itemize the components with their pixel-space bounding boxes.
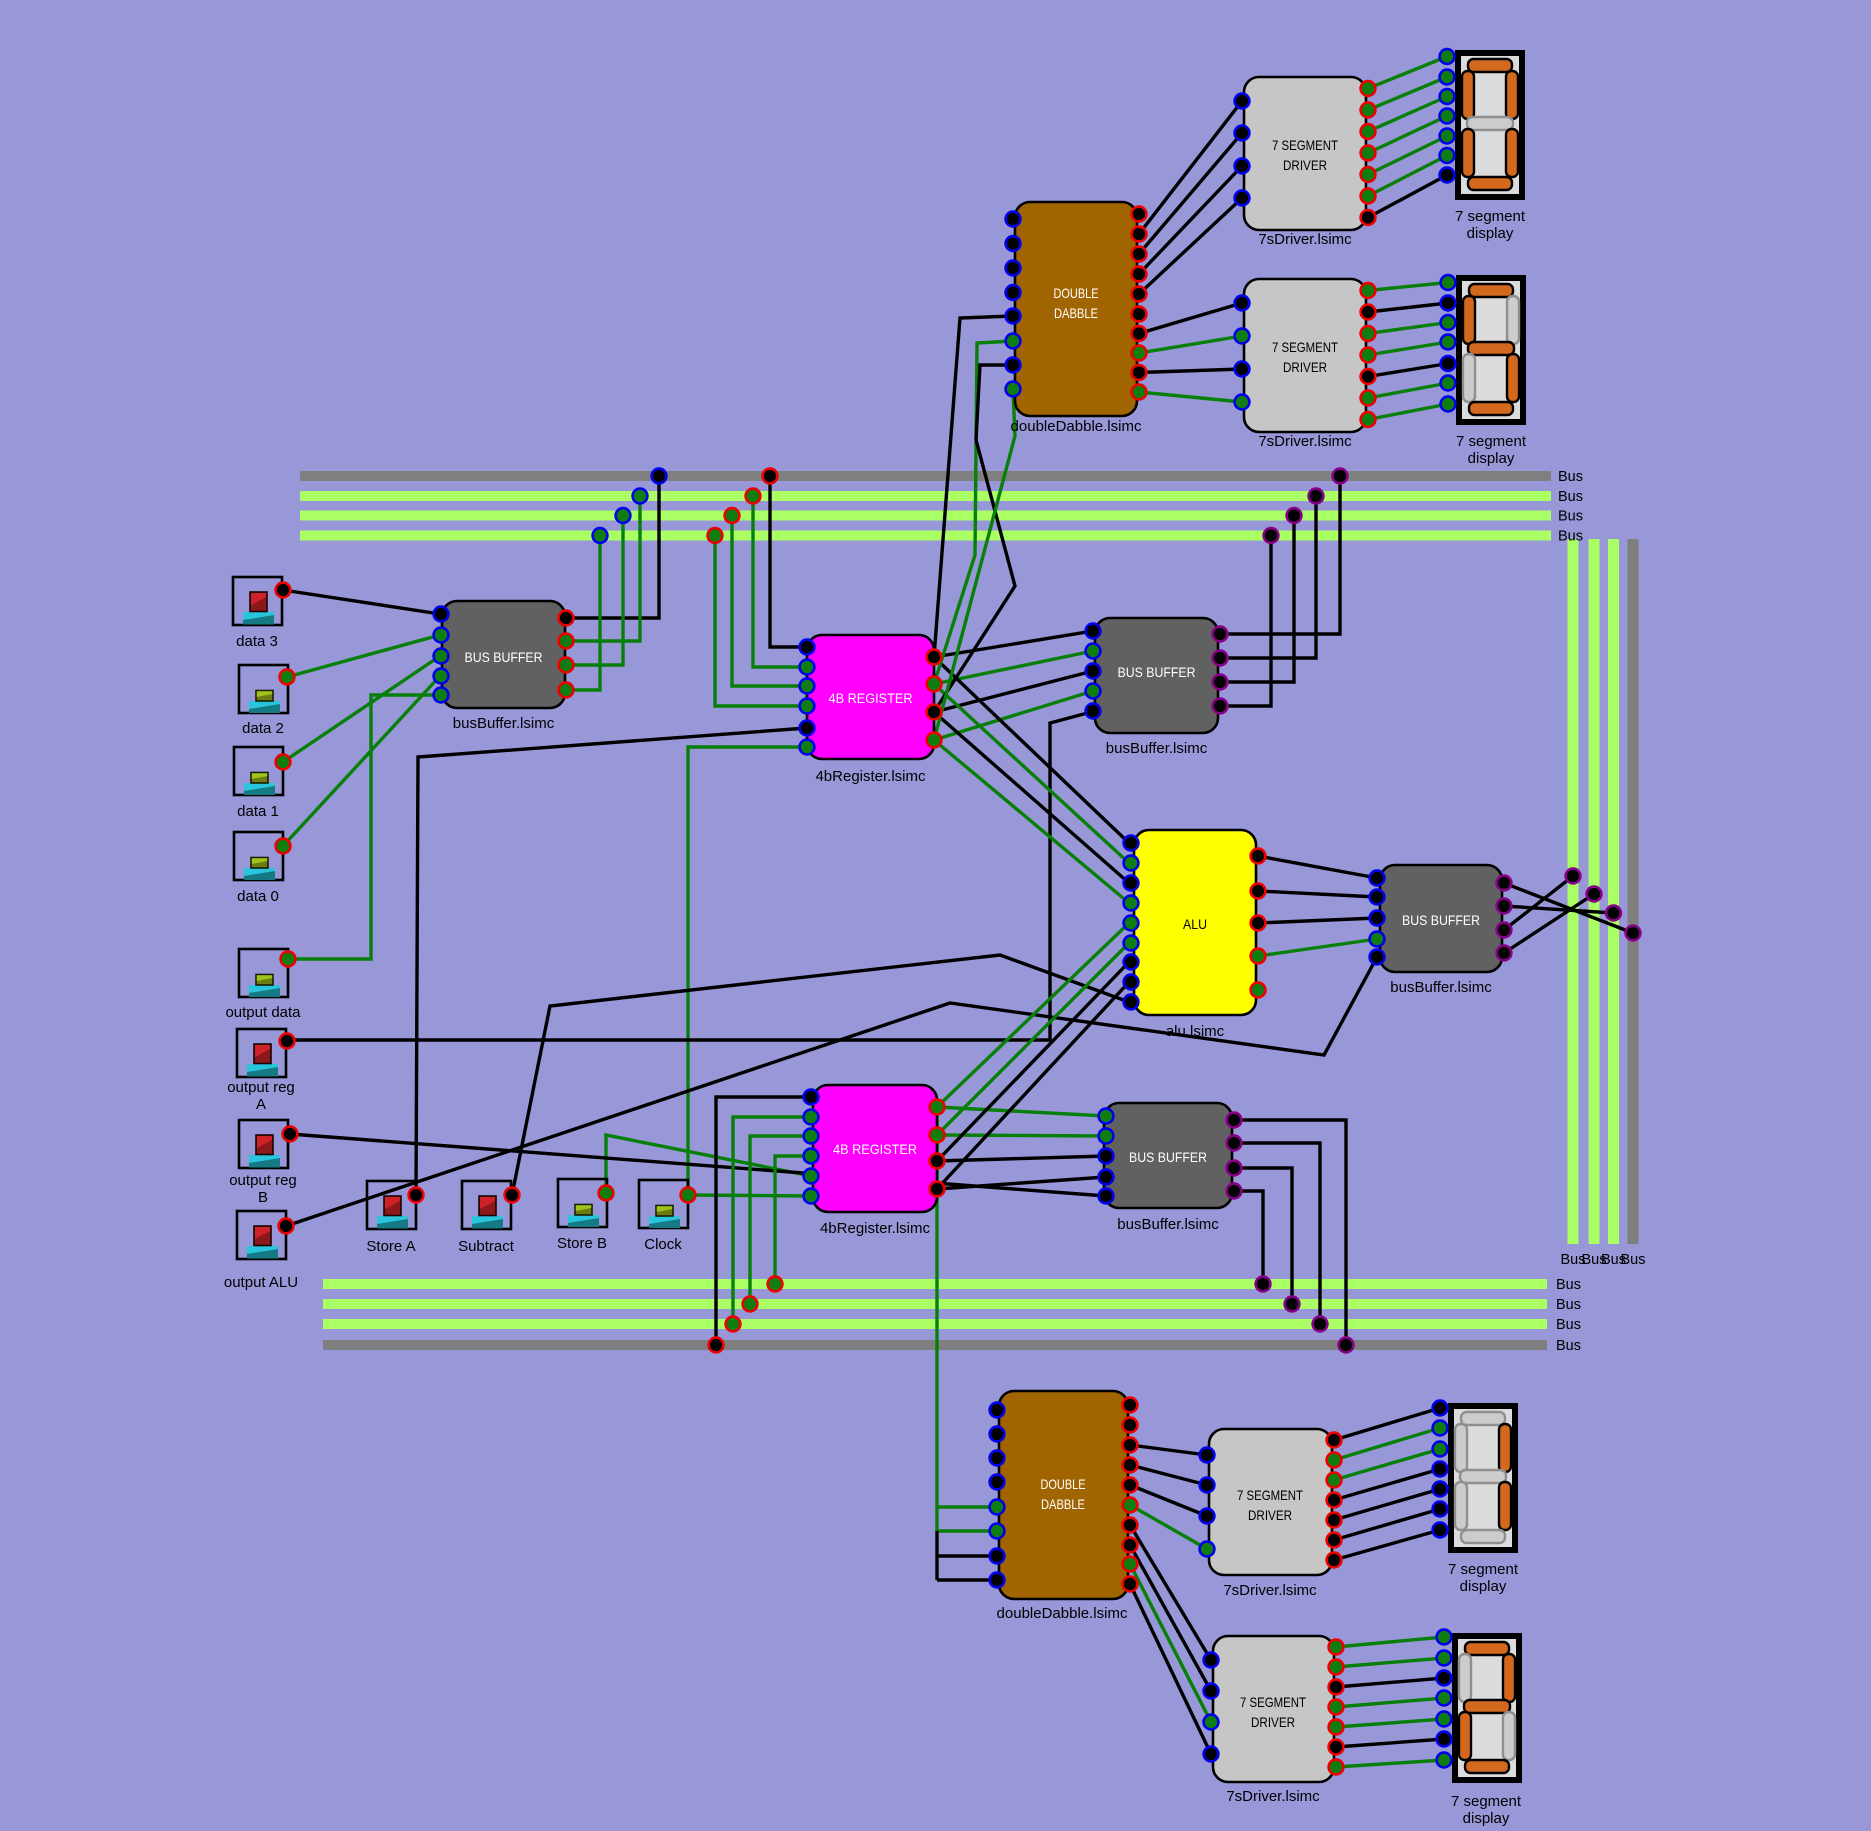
svg-text:busBuffer.lsimc: busBuffer.lsimc bbox=[1106, 740, 1208, 757]
svg-text:4bRegister.lsimc: 4bRegister.lsimc bbox=[815, 768, 926, 785]
svg-text:BUS BUFFER: BUS BUFFER bbox=[465, 649, 543, 665]
component doubleDabble1 bbox=[1011, 202, 1142, 435]
wire register2 out2 to ALU b2 bbox=[937, 943, 1129, 1135]
pin display 2 (digit 5) in6 bbox=[1441, 376, 1456, 391]
pin ALU in6 bbox=[1124, 936, 1139, 951]
pin register1 in6 bbox=[800, 740, 815, 755]
pin 7segDriver1 out2 bbox=[1361, 103, 1376, 118]
svg-text:7 SEGMENT: 7 SEGMENT bbox=[1240, 1694, 1306, 1710]
pin busBuffer2 out2 bbox=[1213, 651, 1228, 666]
svg-text:Subtract: Subtract bbox=[458, 1238, 515, 1255]
pin display 2 (digit 5) in3 bbox=[1441, 315, 1456, 330]
pin register2 out4 bbox=[930, 1182, 945, 1197]
pin doubleDabble1 in1 bbox=[1006, 212, 1021, 227]
bottom bus 2 (green) bbox=[323, 1299, 1547, 1309]
pin display 4 (digit 2) in5 bbox=[1437, 1712, 1452, 1727]
svg-text:doubleDabble.lsimc: doubleDabble.lsimc bbox=[1011, 418, 1142, 435]
button output reg A bbox=[237, 1029, 286, 1077]
svg-text:7 SEGMENT: 7 SEGMENT bbox=[1237, 1487, 1303, 1503]
pin busBuffer2 out1 bbox=[1213, 627, 1228, 642]
wire doubleDabble2 out6 to 7segDriver3 in4 bbox=[1130, 1505, 1207, 1549]
button data 3 bbox=[233, 577, 282, 625]
wire 7segDriver4 seg5 to display4 bbox=[1336, 1719, 1444, 1727]
pin display 2 (digit 5) in2 bbox=[1441, 296, 1456, 311]
pin display 4 (digit 2) in6 bbox=[1437, 1732, 1452, 1747]
component busBuffer4 (regB) bbox=[1104, 1103, 1232, 1233]
wire doubleDabble2 out4 to 7segDriver3 in2 bbox=[1130, 1465, 1207, 1485]
pin display 1 (digit 0) in2 bbox=[1440, 70, 1455, 85]
wire busBuffer2 out3 to top bus bbox=[1220, 516, 1294, 683]
pin doubleDabble1 in4 bbox=[1006, 285, 1021, 300]
wire busBuffer1 out3 to green bus2 bbox=[566, 516, 623, 666]
wire 7segDriver3 seg2 to display3 bbox=[1334, 1428, 1440, 1460]
svg-text:display: display bbox=[1460, 1578, 1507, 1595]
wire doubleDabble2 out10 to 7segDriver4 in4 bbox=[1130, 1584, 1211, 1754]
wire StoreB to register2 store bbox=[606, 1135, 811, 1193]
pin busBuffer3 out4 bbox=[1497, 946, 1512, 961]
wire green bus2 to register1 in3 bbox=[732, 516, 807, 687]
pin ALU in4 bbox=[1124, 896, 1139, 911]
display 2 (digit 5) segment g (lit) bbox=[1468, 342, 1514, 355]
wire doubleDabble1 out5 to 7segDriver1 in4 bbox=[1139, 198, 1242, 294]
display 1 (digit 0) segment g (off) bbox=[1467, 117, 1513, 130]
pin busBuffer4 in3 bbox=[1099, 1149, 1114, 1164]
wire 7segDriver3 seg1 to display3 bbox=[1334, 1408, 1440, 1440]
svg-text:7 segment: 7 segment bbox=[1451, 1793, 1522, 1810]
pin display 3 (digit 1) in6 bbox=[1433, 1502, 1448, 1517]
wire doubleDabble2 out7 to 7segDriver4 in1 bbox=[1130, 1525, 1211, 1660]
pin 7segDriver1 out7 bbox=[1361, 210, 1376, 225]
pin doubleDabble2 in5 bbox=[990, 1500, 1005, 1515]
display 4 (digit 2) frame bbox=[1452, 1633, 1522, 1783]
wire data2 to busBuffer1 in2 bbox=[287, 635, 440, 677]
svg-text:Bus: Bus bbox=[1556, 1317, 1581, 1333]
wire doubleDabble2 out3 to 7segDriver3 in1 bbox=[1130, 1445, 1207, 1455]
component register2 (B) bbox=[813, 1085, 937, 1237]
pin busBuffer4 out3 bbox=[1227, 1161, 1242, 1176]
button Clock bbox=[639, 1180, 688, 1228]
bus tap vertical gray bus (from busBuffer3) bbox=[1626, 926, 1641, 941]
svg-text:Bus: Bus bbox=[1556, 1277, 1581, 1293]
wire doubleDabble2 in6 branch bbox=[937, 1529, 997, 1532]
pin button output reg A output bbox=[280, 1034, 295, 1049]
svg-text:7 SEGMENT: 7 SEGMENT bbox=[1272, 339, 1338, 355]
pin 7segDriver3 in3 bbox=[1200, 1509, 1215, 1524]
pin display 3 (digit 1) in1 bbox=[1433, 1401, 1448, 1416]
pin busBuffer2 in4 bbox=[1086, 684, 1101, 699]
pin doubleDabble1 in8 bbox=[1006, 382, 1021, 397]
pin 7segDriver1 in1 bbox=[1235, 94, 1250, 109]
pin busBuffer1 in4 bbox=[434, 669, 449, 684]
wire busBuffer2 out1 to top bus bbox=[1220, 476, 1340, 634]
svg-text:BUS BUFFER: BUS BUFFER bbox=[1118, 664, 1196, 680]
svg-text:ALU: ALU bbox=[1183, 916, 1207, 932]
wire doubleDabble2 in7 branch bbox=[937, 1554, 997, 1557]
wire busBuffer4 out4 to bottom bus bbox=[1234, 1191, 1263, 1284]
wire register1 out1 to ALU a1 bbox=[934, 657, 1129, 843]
pin button data 3 output bbox=[276, 583, 291, 598]
pin busBuffer3 in2 bbox=[1370, 890, 1385, 905]
svg-text:DABBLE: DABBLE bbox=[1054, 305, 1098, 321]
pin button Subtract output bbox=[505, 1188, 520, 1203]
wire 7segDriver1 seg4 to display1 bbox=[1368, 116, 1447, 153]
pin 7segDriver4 out2 bbox=[1329, 1660, 1344, 1675]
svg-text:display: display bbox=[1468, 450, 1515, 467]
svg-text:display: display bbox=[1467, 225, 1514, 242]
wire register2 outputs down to doubleDabble2 (black pair) bbox=[935, 1531, 938, 1580]
display 2 (digit 5) frame bbox=[1456, 275, 1526, 425]
display 2 (digit 5) segment c (lit) bbox=[1507, 354, 1519, 402]
pin 7segDriver4 out7 bbox=[1329, 1760, 1344, 1775]
svg-text:output reg: output reg bbox=[229, 1172, 297, 1189]
wire busBuffer1 out2 to green bus1 bbox=[566, 496, 640, 641]
pin busBuffer3 in3 bbox=[1370, 911, 1385, 926]
svg-text:output reg: output reg bbox=[227, 1079, 295, 1096]
pin display 1 (digit 0) in4 bbox=[1440, 109, 1455, 124]
display 4 (digit 2) segment d (lit) bbox=[1465, 1760, 1509, 1773]
wire register1 out2 to busBuffer2 in2 bbox=[934, 651, 1093, 684]
wire 7segDriver2 seg5 to display2 bbox=[1368, 364, 1448, 377]
display 1 (digit 0) segment d (lit) bbox=[1468, 177, 1512, 190]
pin doubleDabble2 out6 bbox=[1123, 1498, 1138, 1513]
wire 7segDriver1 seg6 to display1 bbox=[1368, 156, 1447, 197]
display 3 (digit 1) segment e (off) bbox=[1455, 1482, 1467, 1530]
pin doubleDabble1 out9 bbox=[1132, 365, 1147, 380]
pin doubleDabble1 out5 bbox=[1132, 287, 1147, 302]
pin doubleDabble2 out3 bbox=[1123, 1438, 1138, 1453]
display 3 (digit 1) frame bbox=[1448, 1403, 1518, 1553]
svg-text:output ALU: output ALU bbox=[224, 1274, 298, 1291]
top bus 2 (green) bbox=[300, 491, 1551, 501]
bus tap green2 bottom (to register2) bbox=[743, 1297, 758, 1312]
pin ALU in9 bbox=[1124, 995, 1139, 1010]
pin 7segDriver3 out1 bbox=[1327, 1433, 1342, 1448]
button output data bbox=[239, 949, 288, 997]
svg-text:busBuffer.lsimc: busBuffer.lsimc bbox=[453, 715, 555, 732]
svg-text:data 2: data 2 bbox=[242, 720, 284, 737]
pin busBuffer4 out1 bbox=[1227, 1113, 1242, 1128]
display 2 (digit 5) segment f (lit) bbox=[1463, 296, 1475, 344]
pin display 3 (digit 1) in5 bbox=[1433, 1482, 1448, 1497]
wire ALU out1 to busBuffer3 in1 bbox=[1258, 856, 1377, 878]
pin display 4 (digit 2) in2 bbox=[1437, 1651, 1452, 1666]
wire register2 outputs down to doubleDabble2 (green pair) bbox=[935, 1110, 938, 1531]
button data 0 bbox=[234, 832, 283, 880]
right vertical bus 3 (green) bbox=[1608, 539, 1619, 1244]
svg-text:7 segment: 7 segment bbox=[1455, 208, 1526, 225]
wire data1 to busBuffer1 in3 bbox=[283, 656, 440, 762]
pin ALU out3 bbox=[1251, 916, 1266, 931]
pin busBuffer2 in5 bbox=[1086, 704, 1101, 719]
pin busBuffer3 in5 bbox=[1370, 950, 1385, 965]
wire busBuffer2 out4 to top bus bbox=[1220, 536, 1271, 707]
svg-text:BUS BUFFER: BUS BUFFER bbox=[1129, 1149, 1207, 1165]
wire Clock to register1 clk bbox=[688, 747, 807, 1195]
pin doubleDabble1 in7 bbox=[1006, 358, 1021, 373]
pin 7segDriver3 out5 bbox=[1327, 1513, 1342, 1528]
pin button Store B output bbox=[599, 1186, 614, 1201]
wire doubleDabble1 out3 to 7segDriver1 in2 bbox=[1139, 133, 1242, 254]
svg-text:7sDriver.lsimc: 7sDriver.lsimc bbox=[1258, 231, 1352, 248]
component 7segDriver2 bbox=[1244, 279, 1366, 450]
pin button Store A output bbox=[409, 1188, 424, 1203]
pin register2 out2 bbox=[930, 1128, 945, 1143]
wire 7segDriver4 seg6 to display4 bbox=[1336, 1739, 1444, 1747]
bus tap green1 top (from busBuffer2) bbox=[1309, 489, 1324, 504]
pin 7segDriver3 out4 bbox=[1327, 1493, 1342, 1508]
wire output-regB to busBuffer4 en bbox=[290, 1134, 1106, 1196]
wire doubleDabble2 out8 to 7segDriver4 in2 bbox=[1130, 1545, 1211, 1691]
svg-text:7 segment: 7 segment bbox=[1448, 1561, 1519, 1578]
pin busBuffer2 in2 bbox=[1086, 644, 1101, 659]
display 2 (digit 5) segment d (lit) bbox=[1469, 402, 1513, 415]
svg-text:Bus: Bus bbox=[1558, 509, 1583, 525]
pin register2 in1 bbox=[804, 1090, 819, 1105]
svg-text:4bRegister.lsimc: 4bRegister.lsimc bbox=[820, 1220, 931, 1237]
wire 7segDriver3 seg7 to display3 bbox=[1334, 1530, 1440, 1560]
wire doubleDabble2 out5 to 7segDriver3 in3 bbox=[1130, 1485, 1207, 1516]
pin register1 in1 bbox=[800, 640, 815, 655]
svg-text:DOUBLE: DOUBLE bbox=[1054, 285, 1099, 301]
pin doubleDabble2 out1 bbox=[1123, 1398, 1138, 1413]
pin register1 out3 bbox=[927, 705, 942, 720]
display 3 (digit 1) segment a (off) bbox=[1461, 1412, 1505, 1425]
pin 7segDriver3 in2 bbox=[1200, 1478, 1215, 1493]
display 1 (digit 0) segment b (lit) bbox=[1506, 71, 1518, 119]
pin doubleDabble2 in1 bbox=[990, 1403, 1005, 1418]
bottom bus 1 (green) bbox=[323, 1279, 1547, 1289]
display 3 (digit 1) segment c (lit) bbox=[1499, 1482, 1511, 1530]
wire StoreA to register1 store bbox=[416, 728, 807, 1195]
pin 7segDriver1 out4 bbox=[1361, 146, 1376, 161]
wire 7segDriver3 seg5 to display3 bbox=[1334, 1489, 1440, 1520]
wire 7segDriver4 seg2 to display4 bbox=[1336, 1658, 1444, 1667]
pin doubleDabble2 out10 bbox=[1123, 1577, 1138, 1592]
wire register1 out4 to busBuffer2 in4 bbox=[934, 691, 1093, 740]
wire doubleDabble1 out2 to 7segDriver1 in1 bbox=[1139, 101, 1242, 234]
wire register2 out1 to busBuffer4 in1 bbox=[937, 1107, 1106, 1116]
svg-text:Bus: Bus bbox=[1558, 469, 1583, 485]
display 3 (digit 1) segment b (lit) bbox=[1499, 1424, 1511, 1472]
pin 7segDriver1 in2 bbox=[1235, 126, 1250, 141]
wire Clock to register2 clk bbox=[688, 1195, 811, 1196]
wire 7segDriver2 seg4 to display2 bbox=[1368, 342, 1448, 355]
pin display 2 (digit 5) in4 bbox=[1441, 335, 1456, 350]
pin 7segDriver2 out1 bbox=[1361, 283, 1376, 298]
svg-text:output data: output data bbox=[225, 1004, 301, 1021]
wire 7segDriver1 seg2 to display1 bbox=[1368, 77, 1447, 110]
pin button Clock output bbox=[681, 1188, 696, 1203]
pin doubleDabble2 out2 bbox=[1123, 1418, 1138, 1433]
bus tap green1 top (to register1) bbox=[746, 489, 761, 504]
wire doubleDabble2 out9 to 7segDriver4 in3 bbox=[1130, 1564, 1211, 1722]
svg-text:Clock: Clock bbox=[644, 1236, 682, 1253]
button output reg B bbox=[239, 1120, 288, 1168]
pin busBuffer3 in1 bbox=[1370, 871, 1385, 886]
wire ALU out3 to busBuffer3 in3 bbox=[1258, 918, 1377, 923]
pin doubleDabble1 out7 bbox=[1132, 326, 1147, 341]
button Subtract bbox=[462, 1181, 511, 1229]
pin doubleDabble2 in3 bbox=[990, 1451, 1005, 1466]
pin 7segDriver2 out4 bbox=[1361, 348, 1376, 363]
pin busBuffer1 out2 bbox=[559, 634, 574, 649]
display 4 (digit 2) segment f (off) bbox=[1459, 1654, 1471, 1702]
pin doubleDabble2 out5 bbox=[1123, 1478, 1138, 1493]
svg-text:Store B: Store B bbox=[557, 1235, 607, 1252]
pin display 4 (digit 2) in1 bbox=[1437, 1630, 1452, 1645]
pin register2 in2 bbox=[804, 1110, 819, 1125]
bus tap green3 top (from busBuffer1) bbox=[593, 528, 608, 543]
pin register1 in4 bbox=[800, 699, 815, 714]
svg-text:BUS BUFFER: BUS BUFFER bbox=[1402, 912, 1480, 928]
wire gray bus to register1 in1 bbox=[770, 476, 807, 647]
pin 7segDriver4 in2 bbox=[1204, 1684, 1219, 1699]
pin 7segDriver2 in2 bbox=[1235, 329, 1250, 344]
display 1 (digit 0) frame bbox=[1455, 50, 1525, 200]
display 4 (digit 2) segment b (lit) bbox=[1503, 1654, 1515, 1702]
pin busBuffer1 in5 bbox=[434, 688, 449, 703]
pin doubleDabble1 out1 bbox=[1132, 207, 1147, 222]
pin display 3 (digit 1) in7 bbox=[1433, 1523, 1448, 1538]
wire 7segDriver4 seg4 to display4 bbox=[1336, 1698, 1444, 1707]
pin busBuffer4 in5 bbox=[1099, 1189, 1114, 1204]
wire data3 to busBuffer1 in1 bbox=[283, 590, 440, 614]
wire 7segDriver2 seg3 to display2 bbox=[1368, 323, 1448, 334]
display 2 (digit 5) segment b (off) bbox=[1507, 296, 1519, 344]
wire 7segDriver1 seg7 to display1 bbox=[1368, 175, 1447, 218]
pin display 1 (digit 0) in5 bbox=[1440, 129, 1455, 144]
bus tap green1 top (from busBuffer1) bbox=[633, 489, 648, 504]
pin button data 0 output bbox=[276, 839, 291, 854]
wire busBuffer3 out1 to vertical bus bbox=[1504, 883, 1633, 933]
bus tap green3 top (to register1) bbox=[708, 528, 723, 543]
pin display 4 (digit 2) in4 bbox=[1437, 1691, 1452, 1706]
display 4 (digit 2) segment a (lit) bbox=[1465, 1642, 1509, 1655]
pin 7segDriver2 out6 bbox=[1361, 391, 1376, 406]
pin display 2 (digit 5) in7 bbox=[1441, 397, 1456, 412]
wire output-data to busBuffer1 en bbox=[288, 695, 440, 959]
pin doubleDabble2 in6 bbox=[990, 1524, 1005, 1539]
wire register1 out4 to doubleDabble1 in8 bbox=[934, 389, 1015, 740]
pin busBuffer4 in1 bbox=[1099, 1109, 1114, 1124]
pin busBuffer1 in2 bbox=[434, 628, 449, 643]
pin 7segDriver3 in1 bbox=[1200, 1448, 1215, 1463]
wire 7segDriver4 seg3 to display4 bbox=[1336, 1678, 1444, 1687]
display 4 (digit 2) segment e (lit) bbox=[1459, 1712, 1471, 1760]
wire green bottom bus1 to register2 in4 bbox=[775, 1156, 811, 1284]
svg-text:4B REGISTER: 4B REGISTER bbox=[829, 690, 913, 706]
svg-text:DRIVER: DRIVER bbox=[1283, 359, 1327, 375]
pin 7segDriver4 out1 bbox=[1329, 1640, 1344, 1655]
bus tap green3 bottom (to register2) bbox=[726, 1317, 741, 1332]
wire register2 out3 to busBuffer4 in3 bbox=[937, 1156, 1106, 1161]
top bus 3 (green) bbox=[300, 511, 1551, 521]
wire busBuffer4 out2 to bottom bus bbox=[1234, 1143, 1320, 1324]
pin display 2 (digit 5) in5 bbox=[1441, 356, 1456, 371]
wire green bottom bus3 to register2 in2 bbox=[733, 1117, 811, 1324]
wire 7segDriver2 seg2 to display2 bbox=[1368, 303, 1448, 312]
wire Subtract to ALU sub bbox=[512, 955, 1129, 1195]
wire green bus1 to register1 in2 bbox=[753, 496, 807, 667]
svg-text:Store A: Store A bbox=[366, 1238, 415, 1255]
pin 7segDriver1 out1 bbox=[1361, 81, 1376, 96]
svg-text:DRIVER: DRIVER bbox=[1283, 157, 1327, 173]
right vertical bus 2 (green) bbox=[1589, 539, 1600, 1244]
wire register1 out1 to doubleDabble1 in5 bbox=[934, 316, 1013, 657]
bus tap green2 bottom (from busBuffer4) bbox=[1285, 1297, 1300, 1312]
wire register1 out2 to doubleDabble1 in6 bbox=[934, 341, 1013, 684]
pin display 1 (digit 0) in7 bbox=[1440, 168, 1455, 183]
pin ALU out4 bbox=[1251, 949, 1266, 964]
pin 7segDriver4 out3 bbox=[1329, 1680, 1344, 1695]
wire register2 out3 to ALU b3 bbox=[937, 962, 1129, 1161]
component busBuffer2 (regA) bbox=[1095, 618, 1218, 757]
button output ALU bbox=[237, 1211, 286, 1259]
display 2 (digit 5) segment e (off) bbox=[1463, 354, 1475, 402]
pin 7segDriver3 out2 bbox=[1327, 1453, 1342, 1468]
right vertical bus 1 (green) bbox=[1568, 539, 1579, 1244]
pin busBuffer2 in3 bbox=[1086, 664, 1101, 679]
pin register1 in5 bbox=[800, 721, 815, 736]
svg-text:B: B bbox=[258, 1189, 268, 1206]
pin busBuffer4 out2 bbox=[1227, 1136, 1242, 1151]
wire 7segDriver3 seg4 to display3 bbox=[1334, 1469, 1440, 1500]
wire busBuffer3 out3 to vertical bus bbox=[1504, 876, 1573, 930]
pin doubleDabble1 out2 bbox=[1132, 227, 1147, 242]
wire output-ALU to busBuffer3 en bbox=[286, 957, 1377, 1226]
component 7segDriver4 bbox=[1213, 1636, 1334, 1805]
wire data0 to busBuffer1 in4 bbox=[283, 676, 440, 846]
pin 7segDriver4 out5 bbox=[1329, 1720, 1344, 1735]
pin register1 out1 bbox=[927, 650, 942, 665]
bus tap vertical bus2 (from busBuffer3) bbox=[1587, 887, 1602, 902]
wire 7segDriver4 seg7 to display4 bbox=[1336, 1760, 1444, 1767]
wire doubleDabble1 out7 to 7segDriver2 in1 bbox=[1139, 303, 1242, 334]
bus tap gray bottom (to register2) bbox=[709, 1338, 724, 1353]
wire 7segDriver4 seg1 to display4 bbox=[1336, 1637, 1444, 1647]
component register1 (A) bbox=[807, 635, 934, 785]
pin doubleDabble1 out10 bbox=[1132, 385, 1147, 400]
wire 7segDriver1 seg3 to display1 bbox=[1368, 97, 1447, 132]
pin 7segDriver1 out5 bbox=[1361, 167, 1376, 182]
component ALU bbox=[1134, 830, 1256, 1040]
pin busBuffer1 out4 bbox=[559, 683, 574, 698]
pin display 3 (digit 1) in3 bbox=[1433, 1442, 1448, 1457]
svg-text:7sDriver.lsimc: 7sDriver.lsimc bbox=[1226, 1788, 1320, 1805]
wire 7segDriver3 seg6 to display3 bbox=[1334, 1509, 1440, 1540]
pin busBuffer2 out3 bbox=[1213, 675, 1228, 690]
svg-text:7 SEGMENT: 7 SEGMENT bbox=[1272, 137, 1338, 153]
pin button output reg B output bbox=[283, 1127, 298, 1142]
button Store B bbox=[558, 1179, 607, 1227]
bus tap green2 top (from busBuffer2) bbox=[1287, 508, 1302, 523]
wire busBuffer4 out3 to bottom bus bbox=[1234, 1168, 1292, 1304]
display 4 (digit 2) segment c (off) bbox=[1503, 1712, 1515, 1760]
pin 7segDriver3 in4 bbox=[1200, 1542, 1215, 1557]
pin button data 1 output bbox=[276, 755, 291, 770]
pin busBuffer2 in1 bbox=[1086, 624, 1101, 639]
wire doubleDabble2 in5 branch bbox=[937, 1505, 997, 1508]
svg-text:Bus: Bus bbox=[1621, 1252, 1646, 1268]
component 7segDriver1 bbox=[1244, 77, 1366, 248]
svg-text:Bus: Bus bbox=[1558, 529, 1583, 545]
display 3 (digit 1) segment f (off) bbox=[1455, 1424, 1467, 1472]
pin 7segDriver2 in1 bbox=[1235, 296, 1250, 311]
svg-text:A: A bbox=[256, 1096, 266, 1113]
pin doubleDabble2 out7 bbox=[1123, 1518, 1138, 1533]
pin doubleDabble1 in2 bbox=[1006, 236, 1021, 251]
pin doubleDabble1 in6 bbox=[1006, 334, 1021, 349]
